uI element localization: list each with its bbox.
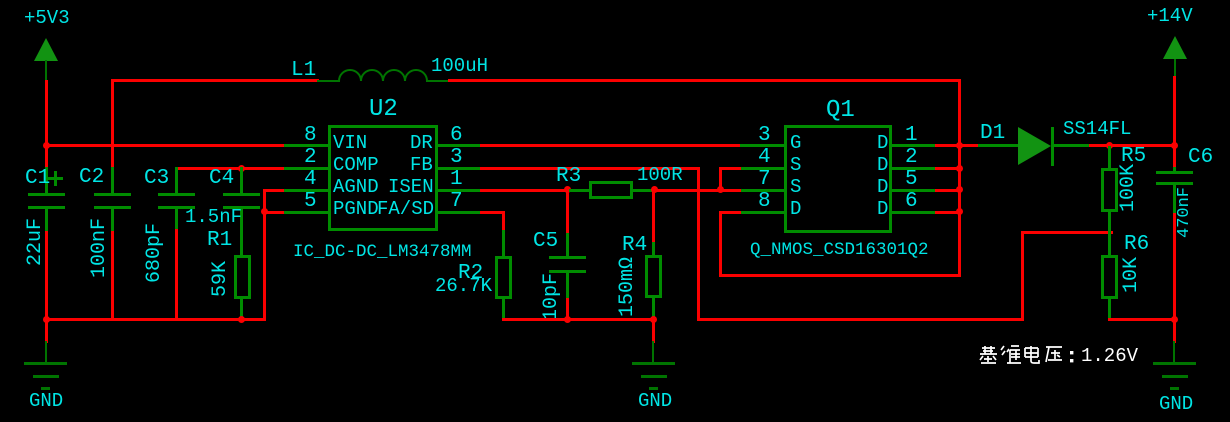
node PGND junction: [261, 208, 268, 215]
pin Q1.5 stub: [892, 189, 936, 192]
power symbol +5V3: [34, 38, 58, 61]
node right GND junction: [1171, 316, 1178, 323]
wire ISEN to Q1 sources: [653, 189, 722, 192]
wire +14V stem: [1174, 59, 1176, 77]
label GND right: [1159, 395, 1193, 414]
label Q_NMOS_CSD16301Q2: [750, 242, 929, 260]
wire R2 top stub: [502, 230, 505, 257]
pin name PGND: [333, 200, 379, 219]
wire +14V drop: [1173, 76, 1176, 169]
wire ISEN row: [480, 189, 569, 192]
pin number Q1.4: [758, 147, 771, 168]
resistor R3: [589, 181, 633, 199]
pin Q1.8 stub: [740, 211, 784, 214]
node R1 bus junction: [238, 316, 245, 323]
label GND middle: [638, 392, 672, 411]
pin number Q1.7: [758, 169, 771, 190]
node R3 left junction: [564, 186, 571, 193]
wire R4 drop: [652, 189, 655, 243]
wire R2 bottom stub: [502, 297, 505, 321]
label D1: [980, 123, 1005, 144]
wire top rail right segment: [448, 79, 961, 82]
label C3: [144, 168, 169, 189]
wire C3 bottom to bus: [175, 229, 178, 321]
wire VIN row: [45, 144, 285, 147]
node R5 top junction: [1106, 142, 1113, 149]
pin U2.7 FA/SD stub: [437, 211, 481, 214]
label 22uF: [26, 218, 46, 266]
capacitor C5 bottom stub: [566, 273, 569, 299]
label GND left: [29, 392, 63, 411]
wire pin8 bottom horizontal: [719, 274, 961, 277]
capacitor C1 top stub: [45, 167, 48, 193]
capacitor C3 plates: [158, 193, 195, 196]
wire R3 right lead: [631, 189, 655, 192]
label 100nF: [90, 218, 110, 278]
pin name ISEN: [388, 178, 434, 197]
capacitor C3 top stub: [175, 167, 178, 193]
capacitor C2 bottom stub: [111, 209, 114, 232]
wire S-link vertical: [719, 167, 722, 192]
wire FB to divider: [1021, 231, 1113, 234]
pin U2.2 COMP stub: [284, 167, 328, 170]
label R3: [556, 166, 581, 187]
wire FA/SD drop to R2: [502, 211, 505, 231]
wire R4 top stub: [652, 242, 655, 256]
capacitor C6 bottom stub: [1173, 185, 1176, 214]
pin number Q1.3: [758, 125, 771, 146]
pin number U2.4: [304, 169, 317, 190]
label 1.5nF: [185, 208, 242, 227]
wire ground bus right: [1108, 318, 1176, 321]
pin Q1.6 stub: [892, 211, 936, 214]
resistor R5 top stub: [1108, 146, 1111, 169]
pin number U2.2: [304, 147, 317, 168]
wire drain2 to node: [935, 167, 961, 170]
capacitor C3 bottom stub: [175, 209, 178, 230]
label 150mohm: [618, 257, 638, 317]
node VIN tap junction: [43, 142, 50, 149]
power symbol +14V: [1163, 36, 1187, 59]
pin number U2.1: [450, 169, 463, 190]
node drain junction 5: [956, 186, 963, 193]
pin name D1r: [877, 134, 888, 153]
pin number Q1.6: [905, 191, 918, 212]
pin name VIN: [333, 134, 367, 153]
wire drain1 to node: [935, 144, 980, 147]
label Q1: [826, 99, 855, 123]
resistor R1: [234, 255, 251, 299]
label 100K: [1119, 164, 1139, 212]
pin number U2.3: [450, 147, 463, 168]
wire C1 bottom to bus: [45, 231, 48, 321]
capacitor C2 top stub: [111, 167, 114, 193]
transistor Q1 body: [784, 125, 892, 233]
label reference voltage chinese: [978, 344, 1078, 366]
wire R1 bottom stub: [240, 297, 243, 321]
wire C4 bottom to R1: [240, 209, 243, 256]
pin name FA/SD: [377, 200, 434, 219]
wire drain6 to node: [935, 211, 961, 214]
wire ground bus middle: [502, 318, 655, 321]
ground symbol right: [1173, 341, 1175, 363]
label R5: [1121, 146, 1146, 167]
pin Q1.3 stub: [740, 144, 784, 147]
pin name DR: [410, 134, 433, 153]
node C6 top junction: [1171, 142, 1178, 149]
label R2: [458, 263, 483, 284]
diode D1 cathode bar: [1051, 127, 1054, 166]
wire DR to gate: [480, 144, 741, 147]
pin number U2.5: [304, 191, 317, 212]
label SS14FL: [1063, 120, 1131, 139]
wire rail corner drop to C2: [111, 79, 114, 168]
label 470nF: [1176, 187, 1193, 238]
wire FB bottom horizontal: [697, 318, 1024, 321]
pin number U2.8: [304, 125, 317, 146]
wire R3 left lead: [567, 189, 591, 192]
pin name D3r: [877, 178, 888, 197]
wire pin7 link: [719, 189, 741, 192]
wire R4 bottom stub: [652, 297, 655, 321]
wire FB row: [480, 167, 700, 170]
node C1 bus junction: [43, 316, 50, 323]
pin name FB: [410, 156, 433, 175]
node drain junction 6: [956, 208, 963, 215]
pin Q1.1 stub: [892, 144, 936, 147]
wire PGND row: [263, 211, 285, 214]
capacitor C6 plates: [1156, 171, 1193, 174]
label R1: [207, 230, 232, 251]
resistor R6: [1101, 255, 1118, 299]
pin number Q1.1: [905, 125, 918, 146]
wire FB vertical: [697, 167, 700, 321]
label L1: [291, 60, 316, 81]
node R4 bus junction: [650, 316, 657, 323]
label 1.26V: [1081, 347, 1138, 366]
wire R5 to R6: [1108, 211, 1111, 256]
pin U2.5 PGND stub: [284, 211, 328, 214]
node R3 right junction: [651, 186, 658, 193]
wire FB right vertical: [1021, 231, 1024, 321]
wire AGND row: [263, 189, 285, 192]
resistor R2: [495, 256, 512, 299]
pin Q1.7 stub: [740, 189, 784, 192]
wire C2 bottom to bus: [111, 231, 114, 321]
resistor R5: [1101, 168, 1118, 212]
diode D1 triangle: [1018, 127, 1051, 165]
pin U2.1 ISEN stub: [437, 189, 481, 192]
pin name D4r: [877, 200, 888, 219]
pin name S: [790, 156, 801, 175]
pin U2.8 VIN stub: [284, 144, 328, 147]
wire diode output row: [1089, 144, 1176, 147]
capacitor C1 plus sign: [48, 177, 63, 180]
wire left GND drop: [45, 318, 48, 343]
wire FA/SD row: [480, 211, 505, 214]
capacitor C1 bottom stub: [45, 209, 48, 232]
pin number Q1.2: [905, 147, 918, 168]
wire top rail left segment: [111, 79, 319, 82]
pin name S2: [790, 178, 801, 197]
wire middle GND drop: [652, 318, 655, 343]
op-amp U2 body: [328, 125, 438, 231]
wire drain5 to node: [935, 189, 961, 192]
wire AGND/PGND vertical to bus: [263, 189, 266, 321]
pin name AGND: [333, 178, 379, 197]
node C5 bus junction: [564, 316, 571, 323]
label +14V: [1147, 7, 1193, 26]
resistor R4: [645, 255, 662, 298]
pin U2.4 AGND stub: [284, 189, 328, 192]
capacitor C4 top stub: [240, 167, 243, 193]
pin number Q1.8: [758, 191, 771, 212]
pin U2.3 FB stub: [437, 167, 481, 170]
label +5V3: [24, 9, 70, 28]
ground symbol middle: [652, 341, 654, 363]
label U2: [369, 98, 398, 122]
pin U2.6 DR stub: [437, 144, 481, 147]
pin name G: [790, 134, 801, 153]
pin name D2r: [877, 156, 888, 175]
label 10K: [1122, 257, 1142, 293]
wire +5V3 stem: [45, 60, 47, 81]
wire COMP row: [175, 167, 285, 170]
wire C5 bottom to bus: [566, 298, 569, 321]
label R4: [622, 235, 647, 256]
pin number Q1.5: [905, 169, 918, 190]
label C5: [533, 231, 558, 252]
label C2: [79, 167, 104, 188]
capacitor C6 top stub: [1173, 167, 1176, 173]
wire ground bus left: [45, 318, 266, 321]
diode D1 cathode lead: [1053, 144, 1090, 147]
wire C5 drop: [566, 189, 569, 234]
label C4: [209, 168, 234, 189]
label R6: [1124, 234, 1149, 255]
wire right GND drop: [1173, 318, 1176, 343]
wire R6 bottom stub: [1108, 297, 1111, 321]
pin number U2.7: [450, 191, 463, 212]
pin name D: [790, 200, 801, 219]
label C6: [1188, 147, 1213, 168]
inductor L1: [317, 62, 451, 84]
wire +5V3 vertical drop: [45, 80, 48, 168]
capacitor C1 plates: [28, 193, 65, 196]
node drain junction 1: [956, 142, 963, 149]
capacitor C5 top stub: [566, 233, 569, 257]
label 26.7K: [435, 277, 492, 296]
node C4 top junction: [238, 165, 245, 172]
wire pin8 vertical: [719, 211, 722, 277]
wire C6 bottom drop: [1173, 213, 1176, 321]
wire pin8 link: [719, 211, 741, 214]
label 10pF: [542, 273, 562, 321]
label IC_DC-DC_LM3478MM: [293, 244, 472, 262]
node S junction: [717, 186, 724, 193]
node drain junction 2: [956, 165, 963, 172]
capacitor C2 plates: [94, 193, 131, 196]
capacitor C4 plates: [223, 193, 260, 196]
label 59K: [211, 261, 231, 297]
label 680pF: [145, 223, 165, 283]
wire pin4 link: [719, 167, 741, 170]
capacitor C5 plates: [549, 256, 586, 259]
pin Q1.4 stub: [740, 167, 784, 170]
ground symbol left: [45, 341, 47, 363]
label 100uH: [431, 57, 488, 76]
label C1: [25, 168, 50, 189]
label 100R: [637, 166, 683, 185]
diode D1 anode lead: [978, 144, 1019, 147]
pin name COMP: [333, 156, 379, 175]
pin Q1.2 stub: [892, 167, 936, 170]
wire switch-node vertical: [958, 79, 961, 277]
pin number U2.6: [450, 125, 463, 146]
